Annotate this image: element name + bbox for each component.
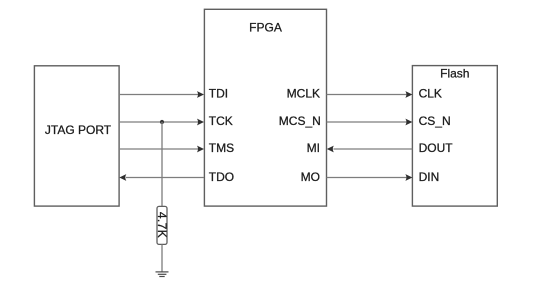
svg-text:MI: MI (307, 141, 320, 155)
wire from TCK junction down to resistor (161, 122, 163, 206)
svg-text:TMS: TMS (209, 141, 234, 155)
wire TDO (FPGA to JTAG PORT) (119, 174, 204, 181)
svg-text:Flash: Flash (440, 67, 469, 81)
resistor R1 4.7K pull-down (155, 206, 169, 244)
wire MCS_N to CS_N (FPGA to Flash) (327, 119, 413, 126)
svg-text:MO: MO (301, 170, 320, 184)
svg-text:CLK: CLK (419, 87, 442, 101)
svg-text:DOUT: DOUT (419, 141, 454, 155)
wire MO to DIN (FPGA to Flash) (327, 174, 413, 181)
FPGA block U1 (204, 9, 326, 206)
Flash block U2 (412, 66, 497, 207)
junction node on TCK wire (160, 120, 164, 124)
svg-text:DIN: DIN (419, 170, 440, 184)
wire TCK (JTAG PORT to FPGA) (119, 119, 204, 126)
svg-text:TCK: TCK (209, 114, 233, 128)
svg-text:JTAG PORT: JTAG PORT (45, 123, 112, 137)
svg-text:4.7K: 4.7K (155, 212, 169, 238)
wire TDI (JTAG PORT to FPGA) (119, 91, 204, 98)
svg-text:MCS_N: MCS_N (279, 114, 321, 128)
wire MCLK to CLK (FPGA to Flash) (327, 91, 413, 98)
svg-text:FPGA: FPGA (249, 21, 282, 35)
svg-text:MCLK: MCLK (287, 87, 320, 101)
svg-text:CS_N: CS_N (419, 114, 451, 128)
svg-text:TDO: TDO (209, 170, 234, 184)
ground symbol (156, 272, 169, 277)
svg-text:TDI: TDI (209, 87, 228, 101)
wire from resistor to ground (161, 244, 163, 272)
wire DOUT to MI (Flash to FPGA) (327, 146, 413, 153)
wire TMS (JTAG PORT to FPGA) (119, 146, 204, 153)
JTAG PORT block (34, 66, 119, 206)
